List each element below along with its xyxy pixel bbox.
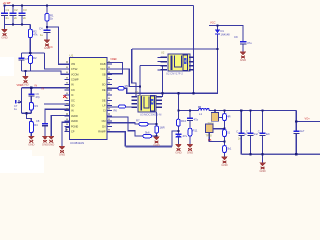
svg-text:R2: R2 [33, 56, 37, 60]
junction [46, 4, 48, 6]
svg-text:C4: C4 [39, 27, 43, 31]
svg-text:VCC: VCC [210, 21, 216, 25]
svg-text:47p: 47p [36, 95, 41, 99]
svg-text:IN: IN [71, 84, 74, 87]
svg-text:U3 MOC3063S-M: U3 MOC3063S-M [140, 113, 162, 117]
junction [46, 26, 48, 28]
svg-text:R4: R4 [34, 123, 38, 127]
ground G3 [22, 76, 29, 87]
capacitor C2 [10, 8, 18, 20]
svg-text:2n: 2n [23, 16, 27, 20]
transformer winding box B [206, 124, 213, 138]
capacitor C4 [39, 27, 50, 38]
wire chain x44 pin row8 [45, 109, 70, 136]
svg-text:DGB: DGB [100, 63, 106, 66]
capacitor C14 out3 [258, 130, 271, 136]
wire RC2 left leg [22, 88, 32, 113]
wire RC1 bottom [22, 71, 70, 76]
resistor R1b vertical x30 [28, 29, 38, 38]
U2 pads right [189, 57, 194, 71]
U3 pads right [157, 96, 163, 108]
bus y146 thick [125, 146, 172, 148]
svg-text:4R: 4R [227, 115, 230, 119]
junction [12, 23, 14, 25]
wire vcc top [209, 26, 243, 52]
svg-text:47p: 47p [194, 118, 199, 122]
capacitor C5 (RC1) [18, 57, 29, 61]
svg-text:VREF: VREF [110, 58, 117, 61]
ground G2 [44, 40, 51, 51]
svg-text:LP: LP [102, 105, 105, 108]
wire chain G7 [62, 122, 70, 146]
svg-text:47u: 47u [183, 134, 188, 138]
resistor R14 divider bottom [223, 146, 232, 153]
svg-text:CP: CP [71, 131, 75, 134]
svg-text:FB: FB [208, 138, 212, 142]
capacitor C11 47p x190 [187, 118, 199, 122]
junction [12, 4, 14, 6]
ground G6 [42, 136, 49, 147]
wire boxB bottom FB [209, 133, 224, 142]
junction [24, 70, 26, 72]
ground G12 [259, 163, 266, 174]
wire bus y110 [179, 110, 297, 112]
capacitor C3 [19, 8, 27, 20]
capacitor C7 horizontal [14, 100, 22, 111]
svg-text:R6: R6 [114, 109, 118, 113]
wire out cap3 [262, 111, 264, 163]
junction [216, 24, 218, 26]
svg-text:U3: U3 [135, 91, 139, 95]
wire stub bottom-left pin [66, 128, 70, 132]
svg-text:L1: L1 [199, 112, 203, 116]
diode D1 [215, 29, 230, 37]
svg-text:C9: C9 [234, 35, 238, 39]
svg-text:2n: 2n [14, 16, 18, 20]
svg-text:SB: SB [102, 73, 106, 76]
svg-text:IC: IC [71, 94, 74, 97]
junction [262, 153, 264, 155]
svg-text:4u7: 4u7 [300, 129, 305, 133]
wire row10 CM [107, 123, 157, 124]
svg-text:AVDD: AVDD [71, 115, 78, 118]
wire chain D row9 [51, 116, 70, 136]
junction [223, 128, 225, 130]
junction [177, 130, 179, 132]
wire y48 horizontal [132, 48, 218, 50]
resistor R2 (RC1) [29, 56, 38, 64]
svg-text:C3: C3 [23, 8, 27, 12]
svg-text:U1: U1 [70, 54, 74, 58]
ground G7 [59, 146, 66, 157]
wire cap C1 leg [4, 6, 6, 25]
ground G10 [187, 144, 194, 155]
svg-text:CM: CM [102, 120, 106, 123]
junction [177, 110, 179, 112]
wire RAMP down [107, 132, 125, 147]
resistor R5 horizontal right of U1 [118, 84, 128, 90]
junction [139, 85, 141, 87]
wire out right branch [295, 111, 297, 155]
wire x178 chain [178, 93, 180, 144]
capacitor C13 out2 [246, 130, 258, 136]
wire out cap1 [240, 111, 242, 155]
ground G8 [153, 137, 160, 148]
ground G7 [48, 136, 55, 147]
svg-text:COMP: COMP [71, 79, 79, 82]
resistor R12 divider top [223, 114, 231, 121]
svg-text:U2 CNY17F-2: U2 CNY17F-2 [166, 71, 183, 75]
svg-text:VCOM: VCOM [71, 73, 79, 76]
bus y154 thick [241, 153, 320, 155]
svg-text:VIN: VIN [71, 63, 75, 66]
resistor R3 (RC2) [29, 103, 38, 111]
junction [161, 92, 163, 94]
sheet background [0, 0, 320, 173]
junction [3, 4, 5, 6]
wire divider to ground [27, 113, 32, 136]
red X no-connect [63, 95, 66, 98]
transformer winding box A [208, 113, 219, 126]
svg-text:2n: 2n [6, 16, 10, 20]
svg-text:2n2: 2n2 [254, 133, 259, 136]
svg-text:5k1: 5k1 [227, 147, 232, 151]
svg-text:R7: R7 [136, 119, 140, 123]
svg-text:C: C [258, 130, 260, 133]
wire RC1 legs [22, 53, 31, 71]
junction [25, 112, 27, 114]
svg-text:R11: R11 [193, 129, 198, 133]
svg-text:1N4148: 1N4148 [221, 33, 231, 37]
wire x162 vertical [162, 66, 164, 97]
svg-text:5k6: 5k6 [145, 131, 150, 135]
wire top-right rect drop [132, 49, 136, 97]
white patch bottom-left [0, 150, 44, 173]
svg-text:47k: 47k [33, 33, 38, 37]
svg-text:IN: IN [71, 110, 74, 113]
op IC U1 body [70, 54, 108, 145]
junction [21, 23, 23, 25]
wire boxA right pin [219, 117, 225, 119]
wire R top chain x47 [46, 6, 48, 40]
U1 pins left [65, 64, 70, 132]
wire cap C2 leg [12, 6, 14, 25]
svg-text:16R: 16R [160, 126, 165, 130]
wire divider chain x224 [224, 111, 226, 157]
svg-text:OC: OC [71, 99, 75, 102]
capacitor C15 out4 [293, 129, 305, 134]
junction [189, 110, 191, 112]
svg-text:OE: OE [102, 89, 106, 92]
junction [214, 110, 216, 112]
junction [223, 140, 225, 142]
wire bus y146 up bend [172, 131, 179, 147]
svg-text:U2: U2 [161, 51, 165, 55]
resistor R9 vertical x156 [155, 126, 165, 134]
wire cap-left stub [18, 102, 22, 104]
svg-text:+U HT: +U HT [3, 1, 11, 5]
junction [177, 92, 179, 94]
ground G1 [1, 29, 8, 40]
resistor R7 horizontal row10 [136, 119, 148, 126]
svg-text:VREF: VREF [17, 84, 24, 87]
junction [155, 135, 157, 137]
wire top bus [4, 5, 194, 7]
wire pin row7 [44, 103, 70, 105]
svg-text:IN: IN [42, 87, 45, 90]
resistor R13 divider mid [223, 130, 231, 137]
capacitor C1 [1, 8, 9, 20]
wire row2 right to down [107, 69, 140, 86]
wire x140 vertical [140, 66, 163, 96]
svg-text:AVDD: AVDD [71, 120, 78, 123]
junction [295, 120, 297, 122]
wire boxB right pin [213, 128, 225, 130]
white patch left edge [0, 57, 14, 76]
junction [29, 52, 31, 54]
svg-text:CN: CN [102, 125, 106, 128]
svg-text:OE: OE [102, 99, 106, 102]
junction [240, 110, 242, 112]
junction [155, 123, 157, 125]
capacitor C10 electrolytic x178 [175, 134, 187, 139]
svg-text:CI: CI [103, 110, 106, 113]
svg-text:SO: SO [102, 84, 106, 87]
U1 pins right [107, 64, 112, 132]
wire cap C3 leg [21, 6, 23, 25]
wire out cap2 [250, 111, 252, 155]
svg-text:VO+: VO+ [305, 117, 311, 121]
svg-text:TP30: TP30 [206, 134, 213, 138]
svg-text:SD: SD [71, 105, 75, 108]
svg-text:UC3842AN: UC3842AN [70, 141, 84, 145]
junction [216, 48, 218, 50]
svg-text:C: C [236, 130, 238, 133]
svg-text:CN: CN [71, 89, 75, 92]
junction [295, 153, 297, 155]
opto U3 [135, 91, 162, 117]
junction [250, 110, 252, 112]
U1 pin numbers [67, 61, 110, 130]
svg-text:C: C [246, 130, 248, 133]
svg-text:47u: 47u [247, 41, 252, 45]
resistor R6 horizontal row8 [114, 105, 126, 113]
junction [223, 110, 225, 112]
svg-text:RAMP: RAMP [98, 131, 106, 134]
wire resistor out y92 [124, 35, 217, 94]
svg-text:IN: IN [35, 85, 38, 88]
capacitor C9 top right [234, 35, 252, 45]
wire x190 chain [189, 111, 191, 144]
junction [192, 92, 194, 94]
wire boxA top pin [214, 111, 216, 113]
wire row9 right path [107, 117, 157, 136]
ground G5 [28, 136, 35, 147]
U1 pin labels right [98, 63, 106, 134]
opto U2 [161, 51, 190, 76]
svg-text:VCC: VCC [100, 68, 105, 71]
capacitor C12 out1 [236, 130, 247, 140]
resistor R11 vertical x190 [188, 128, 198, 136]
resistor R1 top [45, 14, 54, 22]
wire vout [296, 121, 320, 123]
wire diode top [217, 26, 219, 30]
resistor R8 horizontal lower [143, 131, 152, 138]
svg-text:VCC: VCC [48, 46, 53, 49]
U1 pin labels left [71, 63, 79, 134]
wire x193 vertical [193, 6, 195, 94]
svg-text:D1: D1 [221, 29, 225, 33]
wire row6 resistor feed [107, 87, 118, 89]
wire row8 right [107, 106, 132, 108]
junction [21, 4, 23, 6]
wire RC2 top [22, 87, 70, 89]
wire cap 47p leg [30, 88, 32, 113]
svg-text:R5: R5 [125, 84, 129, 88]
svg-text:PGND: PGND [71, 125, 78, 128]
inductor L1 [199, 106, 210, 116]
resistor R10 vertical x178 [177, 119, 187, 126]
ground G9 [175, 144, 182, 155]
wire RC1 top [22, 53, 70, 69]
capacitor C8 chain x44 [36, 119, 48, 126]
wire U-loop vref right [107, 63, 123, 74]
resistor R4 lower [29, 122, 38, 133]
ground G11 [221, 157, 228, 168]
wire branch 47-58 [47, 27, 70, 64]
junction [262, 110, 264, 112]
svg-text:22n: 22n [266, 133, 271, 136]
svg-text:C2: C2 [14, 8, 18, 12]
ground G4 [240, 52, 247, 63]
svg-text:CTS2: CTS2 [71, 68, 78, 71]
svg-text:R10: R10 [181, 119, 187, 123]
junction [30, 87, 32, 89]
svg-text:C1: C1 [6, 8, 10, 12]
svg-text:C8: C8 [36, 119, 40, 123]
svg-text:1u: 1u [40, 33, 44, 37]
junction [250, 153, 252, 155]
wire bottom bus of input caps [5, 25, 31, 54]
U3 pads left [132, 96, 138, 108]
svg-text:R3: R3 [35, 104, 39, 108]
capacitor C6 47p [28, 92, 40, 99]
U2 pads left [158, 57, 168, 71]
wire x156 chain [156, 112, 158, 137]
